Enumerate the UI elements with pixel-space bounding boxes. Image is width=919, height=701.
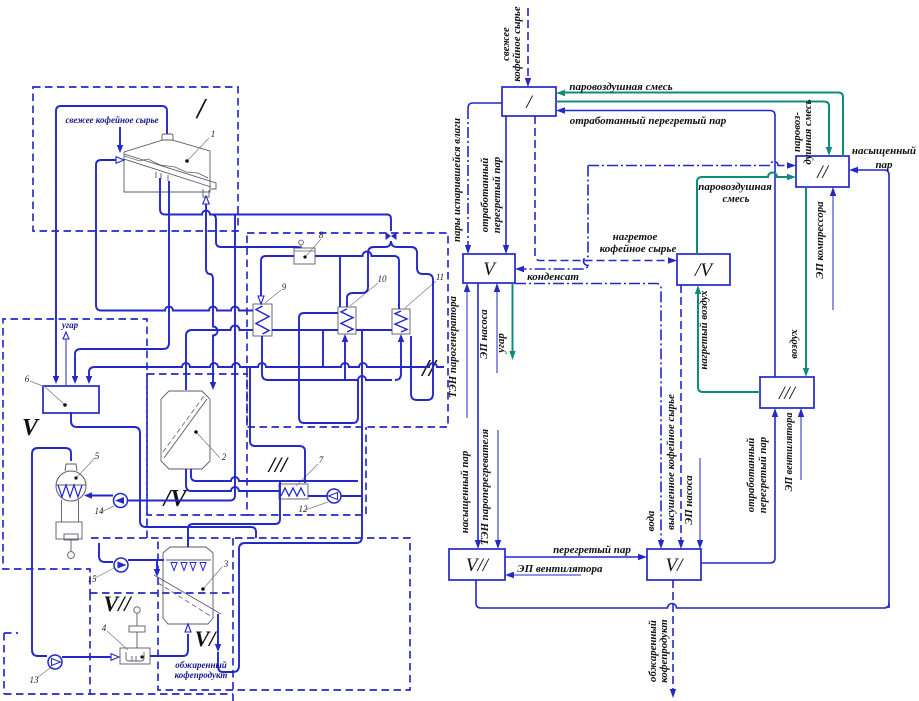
svg-text:обжаренный: обжаренный — [175, 660, 227, 670]
svg-text:7: 7 — [319, 455, 324, 465]
svg-text:высушенное кофейное сырье: высушенное кофейное сырье — [665, 394, 677, 530]
svg-text:кофейное сырье: кофейное сырье — [511, 6, 523, 81]
svg-text:///: /// — [778, 383, 797, 404]
svg-text:/V: /V — [162, 486, 189, 512]
svg-text:пар: пар — [875, 159, 893, 171]
svg-text:V/: V/ — [195, 626, 218, 651]
svg-text:V//: V// — [466, 555, 490, 576]
svg-text:11: 11 — [436, 272, 444, 282]
svg-text:5: 5 — [95, 451, 100, 461]
svg-text:ЭП компрессора: ЭП компрессора — [814, 201, 826, 279]
svg-text:ТЭН пароперегревателя: ТЭН пароперегревателя — [479, 428, 491, 545]
svg-text:9: 9 — [282, 282, 287, 292]
svg-text:нагретое: нагретое — [613, 231, 658, 243]
svg-text:V/: V/ — [666, 555, 685, 576]
svg-text:V//: V// — [104, 591, 133, 616]
svg-text:пары испарившейся влаги: пары испарившейся влаги — [451, 118, 463, 242]
svg-text:15: 15 — [88, 574, 98, 584]
svg-text:вода: вода — [645, 510, 657, 531]
svg-text:14: 14 — [95, 506, 105, 516]
svg-text:отработанный: отработанный — [479, 158, 491, 233]
svg-text:воздух: воздух — [788, 329, 800, 359]
svg-text:6: 6 — [25, 374, 30, 384]
svg-text:12: 12 — [299, 504, 309, 514]
svg-text://: // — [816, 162, 829, 183]
svg-text:перегретый пар: перегретый пар — [491, 156, 503, 233]
svg-text:кофейное сырье: кофейное сырье — [600, 243, 677, 255]
svg-text://: // — [420, 356, 438, 382]
svg-text:угар: угар — [61, 320, 79, 330]
svg-text:ЭП насоса: ЭП насоса — [683, 475, 695, 525]
svg-text:насыщенный пар: насыщенный пар — [459, 450, 471, 533]
svg-text:отработанный: отработанный — [745, 438, 757, 513]
svg-text:3: 3 — [223, 559, 229, 569]
svg-text:отработанный перегретый пар: отработанный перегретый пар — [570, 115, 727, 127]
svg-text:паровоздушная смесь: паровоздушная смесь — [569, 81, 672, 93]
svg-text:///: /// — [267, 452, 289, 477]
svg-text:перегретый пар: перегретый пар — [757, 436, 769, 513]
svg-text:конденсат: конденсат — [527, 271, 579, 283]
svg-text:перегретый пар: перегретый пар — [553, 544, 631, 556]
svg-text:кофепродукт: кофепродукт — [658, 619, 670, 682]
svg-text:V: V — [22, 415, 40, 441]
svg-text:угар: угар — [495, 333, 507, 355]
svg-text:насыщенный: насыщенный — [852, 145, 916, 157]
svg-text:/V: /V — [694, 260, 714, 281]
svg-text:нагретый воздух: нагретый воздух — [698, 290, 710, 370]
svg-text:10: 10 — [378, 274, 388, 284]
svg-text:ЭП вентилятора: ЭП вентилятора — [784, 413, 795, 492]
svg-text:1: 1 — [211, 129, 216, 139]
svg-text:ЭП насоса: ЭП насоса — [478, 309, 490, 359]
svg-text:душная смесь: душная смесь — [802, 99, 814, 164]
svg-text:паровоздушная: паровоздушная — [698, 181, 772, 193]
svg-text:свежее кофейное сырье: свежее кофейное сырье — [65, 115, 158, 125]
svg-text:13: 13 — [30, 675, 40, 685]
svg-text:ЭП вентилятора: ЭП вентилятора — [517, 563, 603, 575]
svg-text:смесь: смесь — [722, 193, 749, 205]
svg-text:2: 2 — [222, 452, 227, 462]
svg-text:4: 4 — [102, 623, 107, 633]
svg-text:8: 8 — [319, 230, 324, 240]
svg-text:кофепродукт: кофепродукт — [175, 670, 228, 680]
